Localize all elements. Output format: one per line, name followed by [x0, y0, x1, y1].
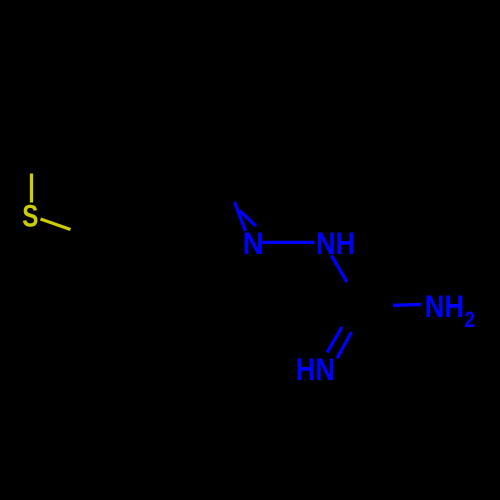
svg-text:N: N — [243, 226, 264, 261]
wire: double bond C=NH line 2 (imine) — [337, 332, 351, 358]
wire: double bond C=NH line 1 (imine) — [327, 327, 342, 352]
svg-text:NH: NH — [316, 226, 355, 261]
wire: bond S-C5 (thiophene, sulfur half) — [41, 219, 71, 230]
wire: bond S-C2 (thiophene, sulfur half) — [30, 174, 33, 203]
wire: double bond CH=N line 2 (inner line) — [240, 211, 256, 226]
svg-text:HN: HN — [296, 352, 335, 387]
wire: bond C-NH2 (amine half) — [393, 303, 421, 307]
svg-text:S: S — [22, 197, 38, 233]
wire: bond N-NH (hydrazine) — [263, 241, 315, 244]
wire: bond NH-C (to guanidine carbon) — [331, 255, 347, 282]
svg-text:NH: NH — [425, 289, 464, 324]
svg-text:2: 2 — [464, 308, 475, 333]
wire: double bond CH=N line 1 (nitrogen half) — [235, 202, 246, 231]
